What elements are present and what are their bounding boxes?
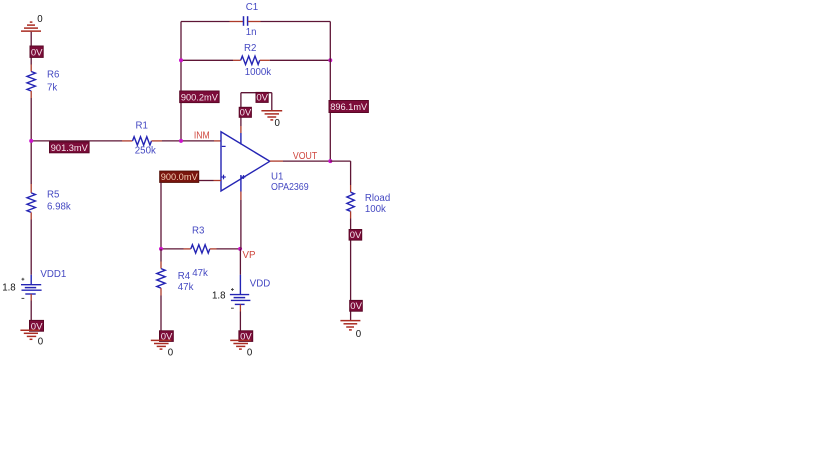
wire: node A down to R5 (red stub at end) — [30, 141, 32, 184]
wire: op-amp V- supply up then right to ground — [240, 93, 242, 126]
voltage label 0V (on V- corner wire) — [256, 92, 269, 103]
wire: top C1 horizontal left segment — [181, 21, 230, 23]
wire: R1 to node INM junction — [162, 140, 214, 142]
wire: R3 right red stub — [210, 248, 217, 250]
svg-text:R5: R5 — [47, 190, 59, 201]
wire: left feedback vertical (INM node up to C1/R2) — [180, 22, 182, 141]
svg-text:0V: 0V — [240, 108, 252, 119]
node: R2 right junction dot — [328, 58, 332, 62]
wire: Rload bottom red stub — [350, 211, 352, 218]
svg-text:1.8: 1.8 — [212, 291, 225, 302]
svg-text:47k: 47k — [192, 268, 208, 279]
svg-text:0: 0 — [275, 118, 281, 129]
node: INM junction dot — [179, 139, 183, 143]
svg-text:R4: R4 — [178, 271, 191, 282]
battery VDD (1.8) — [230, 275, 251, 308]
ground GND3 (op-amp V-) — [261, 111, 282, 120]
svg-text:7k: 7k — [47, 83, 57, 94]
voltage label 896.1mV — [329, 101, 368, 114]
node: R3/R4 junction dot — [159, 247, 163, 251]
resistor Rload (100k) vertical zigzag — [347, 192, 354, 211]
svg-text:R1: R1 — [136, 121, 148, 132]
voltage label 900.2mV — [180, 91, 219, 103]
op-amp plus marker (supply) — [242, 175, 246, 179]
wire: 0V box to R6 top (red lead stub) — [30, 58, 32, 65]
wire: R4 bottom to ground — [160, 288, 162, 295]
wire: R4 column (node to zigzag) — [160, 249, 162, 262]
ground GND6 (below VDD) — [230, 340, 251, 349]
ground GND2 (below VDD1) — [20, 330, 39, 339]
wire: R5 bottom to battery VDD1 — [30, 212, 32, 219]
wire: R2 row right segment — [270, 59, 331, 61]
svg-text:1000k: 1000k — [245, 67, 272, 78]
wire: battery bottom to ground (red stub then dark) — [30, 294, 32, 301]
wire: battery to ground — [239, 312, 241, 332]
voltage label 0V (top-left) — [30, 46, 43, 58]
wire: C1 left red lead — [230, 21, 244, 23]
resistor R6 (7k) vertical zigzag — [27, 72, 35, 92]
voltage label 0V (above right ground) — [350, 300, 363, 312]
wire: R2 row left segment — [181, 59, 233, 61]
svg-text:6.98k: 6.98k — [47, 202, 71, 213]
svg-text:0V: 0V — [350, 301, 362, 312]
op-amp U1 OPA2369 triangle — [221, 132, 270, 191]
wire: Rload to ground chain — [350, 219, 352, 321]
voltage label 0V (below Rload) — [349, 230, 362, 242]
wire: node A to R1 (horizontal) — [31, 140, 122, 142]
svg-text:0V: 0V — [256, 93, 268, 104]
voltage label 0V (on V- vertical wire) — [239, 107, 252, 118]
svg-text:900.2mV: 900.2mV — [181, 92, 219, 103]
svg-text:R6: R6 — [47, 70, 59, 81]
svg-text:901.3mV: 901.3mV — [51, 143, 89, 154]
wire: R3 row left segment — [161, 248, 184, 250]
svg-text:R2: R2 — [244, 43, 256, 54]
capacitor C1 (1n) plates — [244, 16, 248, 26]
svg-text:VDD1: VDD1 — [40, 269, 66, 280]
wire: red stub into + input — [214, 180, 222, 182]
wire: R6 bottom to node A (with red stub) — [30, 91, 32, 98]
svg-text:VP: VP — [243, 250, 256, 261]
wire: red stub into op-amp inverting input — [214, 140, 221, 142]
battery VDD1 (1.8) — [21, 275, 42, 299]
svg-text:0: 0 — [38, 337, 44, 348]
node: VP junction dot — [238, 247, 242, 251]
svg-text:47k: 47k — [178, 282, 194, 293]
resistor R5 (6.98k) vertical zigzag — [27, 193, 35, 213]
svg-text:VDD: VDD — [250, 278, 270, 289]
voltage label 900.0mV (brick red) — [160, 171, 199, 183]
wire: C1 right red lead — [248, 21, 261, 23]
resistor R2 (1000k) horizontal zigzag — [241, 56, 260, 64]
wire: output red stub from tip — [270, 160, 283, 162]
svg-text:0: 0 — [168, 347, 174, 358]
svg-text:OPA2369: OPA2369 — [271, 182, 309, 193]
op-amp plus marker (input) — [221, 175, 226, 180]
node: VOUT junction dot — [328, 159, 332, 163]
wire: battery bottom red stub — [239, 304, 241, 311]
node: R2 left junction dot — [179, 58, 183, 62]
svg-text:C1: C1 — [246, 2, 258, 13]
svg-text:0V: 0V — [31, 47, 43, 58]
wire: right feedback vertical (C1/R2 down to VOUT) — [329, 22, 331, 162]
wire: R2 right red stub — [260, 59, 270, 61]
wire: VP node down to battery VDD — [239, 249, 241, 275]
wire: R1 right red stub — [152, 140, 163, 142]
wire: 900.0mV box to op-amp + input — [199, 180, 214, 182]
svg-text:INM: INM — [194, 131, 210, 142]
voltage label 0V (bottom-left) — [30, 320, 44, 332]
svg-text:Rload: Rload — [365, 193, 390, 204]
svg-text:0V: 0V — [350, 230, 362, 241]
resistor R3 (47k) horizontal zigzag — [191, 245, 210, 253]
ground GND1 top-left (inverted, pointing up) — [21, 22, 41, 31]
svg-text:1n: 1n — [246, 27, 257, 38]
svg-text:900.0mV: 900.0mV — [161, 172, 199, 183]
svg-text:0: 0 — [37, 14, 43, 25]
wire: V+ pin down to VP node — [240, 200, 242, 249]
wire: left vertical from 900.0mV down to R3/R4 node — [160, 182, 162, 249]
op-amp V- pin (blue, crossing top edge) — [240, 133, 242, 145]
wire: R3 left red stub — [184, 248, 191, 250]
svg-text:0: 0 — [356, 329, 362, 340]
op-amp minus marker — [222, 145, 226, 147]
node A junction dot (901.3mV node) — [29, 139, 33, 143]
op-amp V+ pin (blue, crossing bottom edge) — [240, 175, 242, 192]
voltage label 0V (below VDD) — [239, 331, 253, 343]
svg-text:1.8: 1.8 — [2, 282, 15, 293]
voltage label 0V (below R4) — [160, 331, 174, 343]
wire: VOUT node right then down to Rload — [330, 160, 350, 162]
svg-text:0: 0 — [247, 347, 253, 358]
svg-text:250k: 250k — [135, 146, 156, 157]
svg-text:R3: R3 — [192, 226, 204, 237]
wire: GND1 to 0V label box — [30, 32, 32, 47]
wire: top C1 horizontal right segment — [261, 21, 331, 23]
voltage label 901.3mV — [50, 142, 90, 154]
ground GND4 (below Rload) — [340, 321, 360, 330]
wire: output to feedback node — [283, 160, 330, 162]
wire: R2 left red stub — [233, 59, 241, 61]
wire: R1 left red stub — [122, 140, 133, 142]
svg-text:100k: 100k — [365, 204, 386, 215]
wire: R3 to VP node — [217, 248, 241, 250]
wire: Rload top red stub — [350, 185, 352, 192]
ground GND5 (below R4) — [151, 340, 172, 349]
resistor R1 (250k) horizontal zigzag — [133, 137, 152, 145]
wire: op-amp V+ pin red stub below triangle — [240, 192, 242, 201]
resistor R4 (47k) vertical zigzag — [157, 269, 165, 289]
wire: red stub into op-amp top pin — [240, 126, 242, 133]
svg-text:896.1mV: 896.1mV — [330, 102, 368, 113]
